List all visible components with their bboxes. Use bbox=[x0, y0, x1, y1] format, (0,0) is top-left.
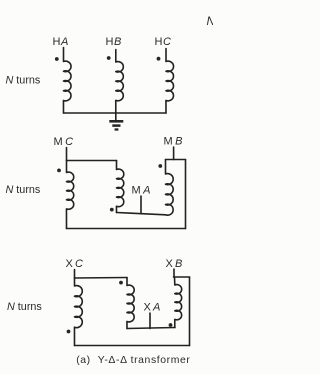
svg-text:(a) Y-Δ-Δ transformer: (a) Y-Δ-Δ transformer bbox=[76, 355, 190, 366]
winding X1 left bbox=[74, 278, 82, 346]
wire XA lead bbox=[149, 313, 151, 329]
svg-text:MC: MC bbox=[54, 136, 74, 148]
wire MB lead bbox=[173, 147, 175, 160]
winding HA bbox=[63, 48, 71, 114]
wire MC lead bbox=[66, 148, 68, 161]
svg-text:N turns: N turns bbox=[7, 301, 42, 313]
winding X3 right bbox=[175, 277, 182, 328]
wire M top (MC node to middle winding) bbox=[67, 160, 117, 162]
svg-text:XC: XC bbox=[66, 258, 84, 270]
svg-text:N turns: N turns bbox=[6, 184, 41, 196]
svg-text:MA: MA bbox=[132, 185, 151, 197]
wire XA bus bbox=[127, 328, 175, 329]
svg-text:HA: HA bbox=[53, 36, 69, 48]
wire M top-right segment bbox=[166, 159, 186, 161]
winding HC bbox=[166, 49, 174, 114]
wire ground stem bbox=[115, 113, 117, 121]
svg-text:XB: XB bbox=[166, 258, 183, 270]
wire X bottom bus bbox=[75, 345, 190, 347]
winding HB bbox=[116, 50, 124, 114]
svg-text:HB: HB bbox=[106, 36, 122, 48]
wire MA lead bbox=[140, 196, 142, 214]
svg-text:MB: MB bbox=[164, 136, 183, 148]
wire MA bus bbox=[117, 213, 166, 215]
winding X2 middle bbox=[127, 278, 134, 329]
winding M2 middle bbox=[116, 161, 123, 213]
polarity dot HB bbox=[107, 56, 111, 60]
polarity dot X2 bbox=[119, 281, 123, 285]
wire X top (XC node to middle winding) bbox=[75, 277, 128, 280]
winding M1 left bbox=[66, 161, 73, 229]
ground bbox=[109, 121, 123, 129]
wire neutral bus H row bbox=[64, 112, 167, 114]
svg-text:XA: XA bbox=[144, 302, 161, 314]
polarity dot M3 bbox=[158, 164, 162, 168]
polarity dot X3 bbox=[169, 323, 173, 327]
wire X top-right segment bbox=[174, 276, 190, 278]
wire XC lead bbox=[74, 270, 76, 279]
polarity dot HC bbox=[157, 57, 161, 61]
svg-text:N: N bbox=[207, 14, 214, 28]
polarity dot X1 bbox=[67, 330, 71, 334]
polarity dot HA bbox=[55, 57, 59, 61]
polarity dot M2 bbox=[110, 208, 114, 212]
svg-text:N turns: N turns bbox=[6, 74, 41, 86]
wire XB lead bbox=[173, 269, 175, 277]
wire M bottom bus bbox=[67, 228, 186, 230]
svg-text:HC: HC bbox=[155, 36, 172, 48]
polarity dot M1 bbox=[57, 169, 61, 173]
wire X right vertical bbox=[189, 277, 191, 346]
winding M3 right bbox=[165, 160, 173, 216]
wire M right vertical bbox=[185, 160, 187, 229]
